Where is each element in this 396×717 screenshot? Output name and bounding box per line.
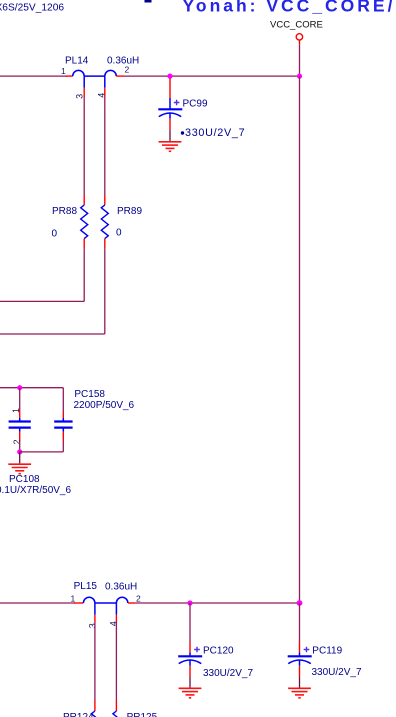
power symbol VCC_CORE circle (296, 34, 302, 40)
svg-text:1: 1 (71, 594, 76, 604)
svg-text:3: 3 (75, 94, 85, 99)
label PC108 (9, 474, 40, 485)
wire main horizontal y=76 right of PL14 (124, 75, 300, 77)
value 0.36uH (PL15) (105, 581, 137, 592)
svg-text:PR89: PR89 (117, 206, 142, 217)
value 2200P/50V_6 (PC158) (74, 400, 135, 411)
wire PC158 top stub (62, 388, 64, 412)
value 330U/2V_7 (PC119) (312, 667, 362, 678)
capacitor PC120 (178, 641, 202, 677)
svg-text:0.36uH: 0.36uH (107, 56, 139, 67)
svg-text:Yonah: VCC_CORE/: Yonah: VCC_CORE/ (183, 0, 396, 15)
wire VCC_CORE vertical x=299 long middle (299, 76, 301, 603)
svg-text:PR88: PR88 (52, 206, 77, 217)
label PR124 (63, 712, 94, 717)
ground (PC99) (159, 142, 182, 152)
wire main horizontal y=76 left of PL14 (0, 75, 67, 77)
wire PC158 bottom corner (62, 441, 64, 452)
pin number 1 (PC108) (11, 408, 21, 413)
title Yonah: VCC_CORE/ (183, 0, 396, 15)
pin number 4 (PL15) (109, 621, 119, 626)
label PC120 (203, 646, 234, 657)
resistor PR125 (cut off at bottom) (113, 701, 120, 717)
wire pin4 PL14 down to PR89 (104, 98, 106, 196)
wire pin3 PL14 down to PR88 (83, 98, 85, 196)
ground (PC119) (288, 688, 311, 698)
wire PC99 to ground (169, 130, 171, 141)
power node VCC_CORE label (270, 19, 323, 30)
wire PC120 to ground (189, 677, 191, 688)
wire ground stub (PC108) (19, 452, 21, 464)
cut-off glyph fragment above title (145, 0, 152, 3)
label PR88 (52, 206, 77, 217)
capacitor PC108 (9, 410, 31, 442)
pin number 2 (PL14) (125, 65, 130, 75)
svg-text:330U/2V_7: 330U/2V_7 (312, 667, 362, 678)
svg-text:0: 0 (116, 228, 122, 239)
wire bottom horizontal PC108-PC158 (20, 451, 64, 453)
junction at PC108 top (19.5,388) (17, 385, 22, 390)
resistor PR124 (cut off at bottom) (91, 701, 98, 717)
pin number 2 (PC108) (12, 439, 22, 444)
svg-text:4: 4 (96, 93, 106, 98)
svg-text:330U/2V_7: 330U/2V_7 (203, 668, 253, 679)
svg-text:1: 1 (61, 66, 66, 76)
label PC158 (74, 389, 105, 400)
wire PC108 bottom to junction (19, 442, 21, 452)
capacitor PC119 (288, 641, 312, 677)
pin number 2 (PL15) (136, 594, 141, 604)
label PC119 (312, 645, 342, 656)
svg-text:330U/2V_7: 330U/2V_7 (185, 127, 245, 139)
value 0 (PR88) (52, 229, 58, 240)
svg-text:X6S/25V_1206: X6S/25V_1206 (0, 2, 64, 13)
svg-text:PC119: PC119 (312, 645, 342, 656)
svg-text:3: 3 (87, 623, 97, 628)
pin number 1 (PL15) (71, 594, 76, 604)
svg-text:PC108: PC108 (9, 474, 40, 485)
wire PC108 top stub (19, 388, 21, 410)
svg-text:2: 2 (136, 594, 141, 604)
junction at PC108 bottom (19.5,452) (17, 449, 22, 454)
svg-text:2: 2 (125, 65, 130, 75)
inductor PL15 (74, 597, 136, 622)
svg-text:PL14: PL14 (65, 56, 89, 67)
svg-text:VCC_CORE: VCC_CORE (270, 19, 323, 30)
resistor PR89 (101, 195, 108, 248)
svg-text:2200P/50V_6: 2200P/50V_6 (74, 400, 135, 411)
wire PR89 down and left to edge (0, 248, 105, 334)
wire main horizontal y=603 right of PL15 (136, 602, 300, 604)
svg-text:0.36uH: 0.36uH (105, 581, 137, 592)
text capacitor spec X6S/25V_1206 (0, 2, 64, 13)
wire PC119 stub from junction (299, 603, 301, 641)
resistor PR88 (81, 195, 88, 248)
label PL15 (74, 581, 98, 592)
wire horizontal y=388 (PC108/PC158 top) (0, 387, 63, 389)
junction at PC120 tap (190,603) (187, 600, 192, 605)
capacitor PC99 (158, 78, 182, 130)
svg-text:PL15: PL15 (74, 581, 98, 592)
capacitor PC158 (54, 412, 72, 441)
wire PC120 stub from junction (189, 603, 191, 641)
value 0 (PR89) (116, 228, 122, 239)
svg-text:PC99: PC99 (183, 98, 208, 109)
pin number 1 (PL14) (61, 66, 66, 76)
svg-text:1: 1 (11, 408, 21, 413)
value 0.1U/X7R/50V_6 (PC108) (0, 485, 71, 496)
value *330U/2V_7 (PC99) (181, 127, 246, 139)
wire PC119 to ground (299, 677, 301, 688)
ground (PC120) (179, 688, 202, 698)
svg-text:0.1U/X7R/50V_6: 0.1U/X7R/50V_6 (0, 485, 71, 496)
pin number 4 (PL14) (96, 93, 106, 98)
junction at VCC column (299,603) (297, 600, 303, 606)
wire main horizontal y=603 left of PL15 (0, 602, 75, 604)
pin number 3 (PL14) (75, 94, 85, 99)
label PR89 (117, 206, 142, 217)
inductor PL14 (66, 70, 124, 97)
wire pin3 PL15 down (94, 623, 96, 701)
label PC99 (183, 98, 208, 109)
wire VCC_CORE vertical x=299 top (299, 40, 301, 76)
svg-text:PC120: PC120 (203, 646, 234, 657)
wire pin4 PL15 down (115, 623, 117, 701)
label PR125 (127, 712, 158, 717)
junction at VCC_CORE column (299,76) (297, 74, 302, 79)
junction at PC99 tap (170,76) (167, 74, 172, 79)
svg-text:0: 0 (52, 229, 58, 240)
svg-text:PR125: PR125 (127, 712, 158, 717)
svg-text:PR124: PR124 (63, 712, 94, 717)
wire PR88 down and left to edge (0, 248, 84, 301)
pin number 3 (PL15) (87, 623, 97, 628)
value 0.36uH (PL14) (107, 56, 139, 67)
value 330U/2V_7 (PC120) (203, 668, 253, 679)
svg-text:PC158: PC158 (74, 389, 105, 400)
ground (PC108) (8, 464, 31, 474)
label PL14 (65, 56, 89, 67)
